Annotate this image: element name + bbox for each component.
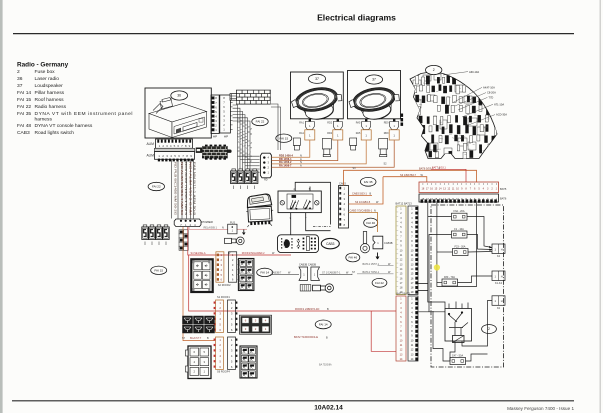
svg-text:POWER: POWER <box>202 220 214 224</box>
red wire BAT2 run <box>371 311 396 351</box>
svg-text:FAI 22: FAI 22 <box>17 104 31 110</box>
rear view pin grid <box>306 237 309 251</box>
relay B3 <box>245 169 251 184</box>
loudspeaker 37 left label <box>308 74 325 83</box>
svg-text:36: 36 <box>17 76 23 82</box>
small connector left of fuse box <box>401 114 404 126</box>
crimp ferrule near RD2 <box>322 139 331 157</box>
svg-text:F1 - 10A: F1 - 10A <box>454 228 464 231</box>
fuse box 2 outline <box>410 72 497 159</box>
svg-text:BAT5: BAT5 <box>500 187 507 191</box>
wire bundle 1 labels <box>174 162 197 216</box>
svg-text:BAT12 BAT13: BAT12 BAT13 <box>396 202 413 206</box>
footer rule <box>12 400 574 402</box>
svg-text:RD2: RD2 <box>327 121 332 124</box>
svg-text:Roof harness: Roof harness <box>35 97 65 103</box>
connector ALIM 2 body <box>155 152 195 160</box>
harness label FAI 15 b <box>151 266 167 274</box>
svg-text:AK47-10A: AK47-10A <box>483 86 495 90</box>
svg-text:C8-20A: C8-20A <box>487 91 496 95</box>
speaker wire RA 1456-2 <box>271 140 366 164</box>
svg-text:HP: HP <box>224 135 228 139</box>
svg-text:FAI 22: FAI 22 <box>256 120 265 124</box>
svg-text:harness: harness <box>35 117 53 123</box>
ring terminal b <box>313 284 334 292</box>
harness label FAI 22 a <box>252 117 268 125</box>
rear view lamp symbol dark <box>281 238 293 248</box>
loudspeaker 37 right label <box>365 75 382 84</box>
svg-text:CAB3 5/53-1: CAB3 5/53-1 <box>352 192 367 196</box>
connector BAT13 tall strip <box>408 206 418 295</box>
battery splice symbol <box>300 285 311 291</box>
svg-text:FAI 15: FAI 15 <box>154 268 163 272</box>
svg-text:FAI 22: FAI 22 <box>152 185 161 189</box>
rocker switch pins <box>250 221 270 225</box>
down arrow near FUS <box>243 230 246 235</box>
connector S1 ROOF1 left strip <box>216 300 224 332</box>
svg-text:FAI 48: FAI 48 <box>17 123 31 129</box>
connector mini strip below POWER <box>179 230 188 251</box>
terminal RA5 receptacle <box>361 130 371 140</box>
wire from inline pair right <box>320 273 353 276</box>
red wire BATT 5-53-1 stub <box>431 169 466 182</box>
terminal block K2 <box>492 296 505 306</box>
svg-text:FAI 46: FAI 46 <box>348 256 357 260</box>
wire BAT12 15-57-1 <box>378 265 394 267</box>
harness label FAI 14 b <box>315 320 331 329</box>
terminal RD9 receptacle <box>389 130 399 140</box>
svg-text:BAT2 BAT3: BAT2 BAT3 <box>397 292 411 296</box>
svg-text:FA8 NM 8/11-1 AFM 50-8: FA8 NM 8/11-1 AFM 50-8 <box>193 162 197 216</box>
arrowheads into K4 <box>489 246 492 251</box>
svg-text:FAI 15: FAI 15 <box>279 136 288 140</box>
wires BAT6 to fuse panel <box>419 203 493 361</box>
wire BAT12 70-52-1 <box>357 273 394 275</box>
connector BAT3 strip <box>408 296 418 361</box>
svg-text:37: 37 <box>315 77 319 81</box>
svg-text:FAI 14: FAI 14 <box>17 90 31 96</box>
connector S2 strip <box>216 252 224 282</box>
harness label FAI 14 a <box>257 268 273 276</box>
svg-text:ALIM: ALIM <box>147 153 155 157</box>
svg-text:FAI 35: FAI 35 <box>17 111 31 117</box>
svg-text:Loudspeaker: Loudspeaker <box>35 83 64 89</box>
svg-text:CAB3B/7: CAB3B/7 <box>271 272 282 275</box>
BAT6 pin squares row <box>421 199 497 202</box>
connector HP right strip <box>220 95 231 133</box>
fuse label AK47-10A <box>452 87 482 103</box>
wire bundle radio ALIM down <box>172 160 194 219</box>
svg-text:S7 1/CAB3B/7-1: S7 1/CAB3B/7-1 <box>322 272 341 275</box>
relay B2 <box>238 169 244 184</box>
harness label FAI 35 a <box>360 177 376 186</box>
svg-text:CAB3 7/3/CAB3B-1: CAB3 7/3/CAB3B-1 <box>350 209 373 213</box>
wire bundle 2 labels <box>237 118 253 162</box>
svg-text:ROOF1 24B/472-1D: ROOF1 24B/472-1D <box>295 307 319 311</box>
terminal block K1-K4 <box>492 271 505 281</box>
header rule <box>13 33 574 35</box>
svg-text:BAT6: BAT6 <box>500 197 507 201</box>
connector BAT2 strip <box>396 296 406 361</box>
svg-text:RD9: RD9 <box>384 132 389 135</box>
red wire ROOF1 long run <box>189 255 396 311</box>
svg-text:RD9: RD9 <box>384 121 389 124</box>
svg-text:CAB3: CAB3 <box>326 242 335 246</box>
wire RELAIS-B pink <box>189 227 228 229</box>
svg-text:FAI 14: FAI 14 <box>319 322 328 326</box>
connector bottom-left six cell <box>186 346 212 379</box>
relay B1 <box>231 169 237 184</box>
loudspeaker box 37 right <box>348 71 401 119</box>
wires BAT13 pins to panel <box>418 284 428 291</box>
terminal RD2 receptacle <box>333 130 343 140</box>
svg-text:Radio harness: Radio harness <box>35 104 67 110</box>
yellow junction dot <box>434 264 440 270</box>
rocker switch CAB3 3d drawing <box>245 194 274 227</box>
svg-text:RA5: RA5 <box>356 132 361 135</box>
svg-text:RA1: RA1 <box>299 121 304 124</box>
connector POWER body <box>174 219 201 227</box>
svg-text:BA 7520/8A: BA 7520/8A <box>319 364 332 367</box>
rocker switch body <box>248 206 272 222</box>
svg-text:BAT12 70/52-1: BAT12 70/52-1 <box>363 271 380 274</box>
svg-text:CAB3: CAB3 <box>17 130 30 136</box>
svg-text:RA 1456-7: RA 1456-7 <box>279 163 292 167</box>
svg-text:RA1: RA1 <box>299 132 304 135</box>
svg-text:RA5: RA5 <box>356 121 361 124</box>
radio drawing detail <box>149 98 207 138</box>
loudspeaker 37 left drawing <box>290 84 345 124</box>
fuse box 2 tiny text marks <box>412 82 492 155</box>
svg-text:37: 37 <box>372 78 376 82</box>
svg-text:AT1-10A: AT1-10A <box>494 102 504 106</box>
connector HP left strip <box>211 95 219 134</box>
svg-text:Road lights switch: Road lights switch <box>35 130 75 136</box>
svg-text:ALIM: ALIM <box>147 142 155 146</box>
svg-text:DYNA VT with EEM instrument pa: DYNA VT with EEM instrument panel <box>35 111 133 117</box>
radio box 36 outline <box>145 88 211 138</box>
connector bottom 2x4 hatched <box>240 346 257 378</box>
relay bank stubs <box>145 186 255 246</box>
crimp ferrule near RA1 <box>293 138 300 150</box>
svg-text:CAB3B: CAB3B <box>384 241 393 245</box>
svg-text:BGA/ST.T: BGA/ST.T <box>190 337 202 340</box>
svg-text:FAI 15: FAI 15 <box>17 97 31 103</box>
svg-text:H: H <box>501 274 503 278</box>
harness label FAI 46 b <box>346 253 360 262</box>
svg-text:T7D: T7D <box>488 95 493 99</box>
switch schematic rounded box <box>278 191 321 213</box>
svg-text:Radio - Germany: Radio - Germany <box>17 62 69 69</box>
connector band A six cell <box>191 259 212 292</box>
loudspeaker 37 right drawing <box>347 84 402 124</box>
relay bank bottom 2x3 <box>183 316 215 333</box>
relay A4 <box>163 225 169 240</box>
svg-text:S3 1/CAB3-5: S3 1/CAB3-5 <box>355 200 371 204</box>
connector left strip <box>216 337 224 369</box>
rear view small indicator symbol <box>297 239 300 248</box>
svg-text:N: N <box>222 227 224 230</box>
svg-text:NO ALIM 8/1456-4 NM 50: NO ALIM 8/1456-4 NM 50 <box>180 162 184 215</box>
relay contacts <box>448 302 468 336</box>
page right edge line <box>600 0 601 413</box>
terminal RD9 spade <box>389 119 399 140</box>
svg-text:FAI 14: FAI 14 <box>260 270 269 274</box>
radio label ellipse 36 <box>171 91 188 100</box>
svg-text:Fuse box: Fuse box <box>35 69 56 75</box>
wires left of speaker boxes <box>271 104 281 150</box>
red wire S4 SE1-SE-A run <box>188 227 291 255</box>
connector ALIM 1 body <box>156 139 193 148</box>
wire into inline pair left <box>270 274 299 276</box>
svg-text:2: 2 <box>488 327 490 331</box>
wire CAB3 5-53-1 orange <box>349 195 373 197</box>
fuse label AT1-10A <box>462 104 493 117</box>
svg-text:Electrical diagrams: Electrical diagrams <box>317 13 396 23</box>
svg-text:H: H <box>501 299 503 303</box>
terminal RA5 spade <box>361 119 371 140</box>
svg-text:S2 ROOF2: S2 ROOF2 <box>218 283 231 287</box>
wire bundle HP right elbows <box>233 105 260 172</box>
svg-text:ROOF2/SIGA/REF.2: ROOF2/SIGA/REF.2 <box>242 252 265 255</box>
fuse label A60-10A <box>443 72 468 75</box>
svg-text:Laser radio: Laser radio <box>35 76 60 82</box>
orange wire S7 BGA run <box>183 227 215 341</box>
connector BAT5 long row <box>419 182 499 193</box>
speaker wire RD2 1456-4 <box>271 140 309 157</box>
connector RAD 4-pin <box>260 153 271 178</box>
svg-text:F3A - 20A: F3A - 20A <box>453 210 464 213</box>
connector ROOF2 six cell <box>240 315 272 334</box>
wire S3 1-BAT6-17 orange run <box>383 177 427 182</box>
svg-text:S6 ROOF4: S6 ROOF4 <box>217 370 230 374</box>
connector band A 2x4 hatched <box>238 259 254 291</box>
svg-text:RD: RD <box>264 179 268 182</box>
connector CAB3B <box>373 236 383 249</box>
terminal RA1 spade <box>305 119 315 140</box>
relay coil <box>453 336 465 343</box>
svg-text:37: 37 <box>17 83 23 89</box>
harness label FAI 22 c <box>372 278 387 287</box>
wire CAB3 7-CAB3B-1 <box>349 213 378 233</box>
wires HP strip to grommet tab <box>230 96 236 99</box>
fuse label C8-20A <box>455 93 486 106</box>
bullet terminal <box>360 232 369 253</box>
svg-text:RD1 ALIM 7/1456-1 NM 5: RD1 ALIM 7/1456-1 NM 5 <box>184 162 188 215</box>
speaker wire RD 1456-1 <box>271 140 337 160</box>
svg-text:A: A <box>300 163 302 167</box>
svg-text:FAI 22: FAI 22 <box>375 281 384 285</box>
svg-text:S4 SE1/SE-A: S4 SE1/SE-A <box>191 252 206 255</box>
relay A1 <box>142 225 148 240</box>
relay A2 <box>149 225 155 240</box>
crimp ferrule near RD9 <box>379 139 388 157</box>
svg-text:N: N <box>374 210 376 213</box>
svg-text:RD PLB 8/C1450 NM 50-2G: RD PLB 8/C1450 NM 50-2G <box>174 162 178 216</box>
svg-text:Massey Ferguson 7400 - Issue: Massey Ferguson 7400 - Issue 1 <box>507 406 574 411</box>
harness label CAB3 ellipse <box>321 238 339 248</box>
terminal block K4 <box>492 244 505 254</box>
svg-text:RD2: RD2 <box>327 132 332 135</box>
wire BAT6 5-53-1 orange top run <box>344 170 477 185</box>
fuse label ACD-30A <box>466 115 495 126</box>
connector ALIM 2 bottom pin row <box>158 159 194 162</box>
svg-text:Pillar harness: Pillar harness <box>35 90 65 96</box>
svg-text:BAT2 T1/ROOD/4-E: BAT2 T1/ROOD/4-E <box>294 335 318 339</box>
svg-text:BAT12 15/57.1: BAT12 15/57.1 <box>363 263 380 266</box>
svg-text:A60-10A: A60-10A <box>469 70 479 74</box>
harness label FAI 15 a <box>276 134 292 142</box>
fuse box 2 label ellipse <box>426 65 442 74</box>
svg-text:NO4 ALIM 4/50-2 G NM: NO4 ALIM 4/50-2 G NM <box>189 162 193 216</box>
harness label FAI 46 a <box>364 218 378 227</box>
relay B4 <box>252 169 258 184</box>
mechanical link dash line <box>313 226 331 228</box>
switch wiring loop <box>291 182 331 235</box>
connector BAT6 long row <box>419 194 499 202</box>
relay schematic box <box>445 309 472 342</box>
connector ALIM mating wedge <box>155 148 195 151</box>
svg-text:DYNA VT console harness: DYNA VT console harness <box>35 123 93 129</box>
page left edge strip <box>0 0 3 413</box>
svg-text:2: 2 <box>17 69 20 75</box>
svg-text:CAB3B CAB3B: CAB3B CAB3B <box>299 263 316 266</box>
svg-text:F80 - 70A: F80 - 70A <box>444 276 455 279</box>
fuse panel label ellipse 2 <box>482 325 497 334</box>
svg-text:RELAIS/B 1: RELAIS/B 1 <box>204 227 218 230</box>
connector S1 ROOF1 right strip <box>228 300 236 332</box>
svg-text:BATT 5/53.1: BATT 5/53.1 <box>432 166 446 169</box>
svg-text:10A02.14: 10A02.14 <box>314 404 343 411</box>
svg-text:ACD-30A: ACD-30A <box>496 113 507 117</box>
terminal RA1 receptacle <box>305 130 315 140</box>
speaker wire RA 1456-7 <box>271 140 394 167</box>
down arrow below CAB3B <box>376 253 379 260</box>
svg-text:S3 1/BAT6/17: S3 1/BAT6/17 <box>400 173 417 177</box>
loudspeaker box 37 left <box>291 72 344 119</box>
ring terminal a <box>225 237 245 245</box>
fuse label T7D <box>458 97 487 110</box>
wire S3 1-CAB3-5 orange <box>349 177 384 204</box>
switch schematic inner contacts <box>287 194 313 210</box>
relay A3 <box>156 225 162 240</box>
svg-text:HP: HP <box>213 135 217 139</box>
harness label FAI 22 b <box>148 182 164 190</box>
fuse panel dash-dot border <box>431 205 504 367</box>
svg-text:F23 - 30A: F23 - 30A <box>455 245 466 248</box>
svg-text:2: 2 <box>433 68 435 72</box>
terminal RD2 spade <box>333 119 343 140</box>
svg-text:S1 ROOF1: S1 ROOF1 <box>217 295 230 299</box>
connector ROOF2 strip <box>229 252 237 282</box>
connector right strip <box>228 337 236 369</box>
svg-text:FAI 35: FAI 35 <box>364 180 373 184</box>
svg-text:K1-K4: K1-K4 <box>495 282 503 285</box>
switch rear view box <box>278 235 319 253</box>
svg-text:C47 - 50A: C47 - 50A <box>452 354 464 357</box>
switch schematic screw terminals <box>280 201 284 205</box>
connector BAT12 tall strip <box>396 206 406 295</box>
svg-text:36: 36 <box>177 94 181 98</box>
svg-text:H: H <box>501 247 503 251</box>
svg-text:CAB3: CAB3 <box>339 181 346 185</box>
svg-text:FAI 46: FAI 46 <box>366 221 375 225</box>
crimp ferrule near RA5 <box>350 138 357 150</box>
